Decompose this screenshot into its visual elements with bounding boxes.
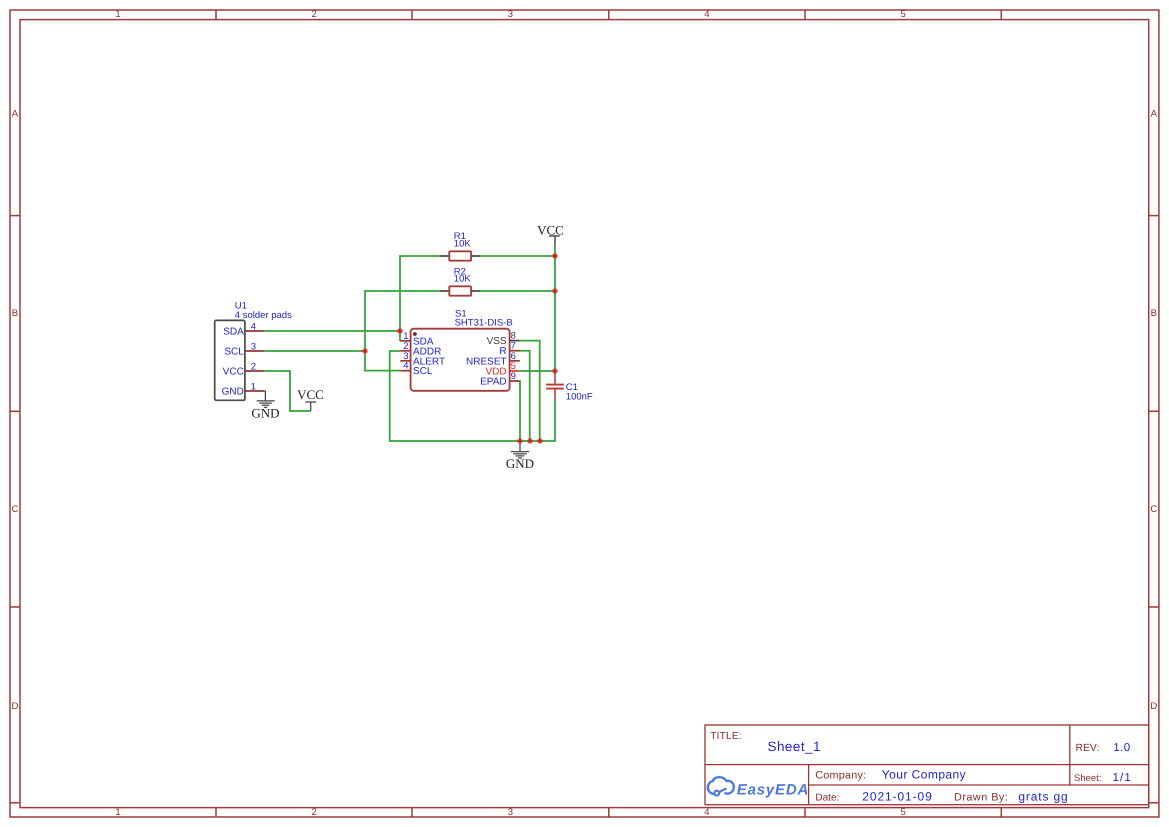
junction node pin7/GND [528,439,533,444]
svg-text:A: A [1151,109,1158,120]
svg-text:B: B [1151,308,1157,319]
svg-text:4: 4 [403,361,408,372]
wire S1 VDD to rail [519,370,555,372]
wire SDA U1 to S1 [264,330,400,332]
junction node pin8/GND [538,439,543,444]
junction node SDA [397,328,402,333]
S1 pin stubs 1,2,3,4,7,6,9 [400,341,520,381]
connector U1 [215,320,265,400]
svg-text:GND: GND [251,406,279,421]
resistor R2 [440,286,481,295]
wire S1 ADDR to ground bus [390,351,555,441]
svg-text:Sheet:: Sheet: [1074,773,1101,784]
svg-text:3: 3 [508,9,513,20]
U1 pin names SDA SCL VCC GND [222,327,245,398]
svg-text:1/1: 1/1 [1113,772,1132,784]
svg-text:2: 2 [251,361,256,372]
svg-text:SDA: SDA [223,327,244,338]
junction node R1/VCC [552,253,557,258]
svg-text:A: A [12,109,19,120]
svg-text:B: B [12,308,18,319]
wire SCL U1 to node [264,350,365,352]
svg-text:grats gg: grats gg [1018,789,1068,803]
svg-text:SHT31-DIS-B: SHT31-DIS-B [455,318,513,329]
wire R1 left to S1 pin1 [400,256,440,341]
pin names [413,336,445,377]
svg-text:2021-01-09: 2021-01-09 [862,789,932,803]
svg-text:Company:: Company: [815,770,866,782]
ground symbol at U1 [257,391,275,407]
junction node SCL [362,348,367,353]
title block [705,725,1149,805]
svg-text:C: C [11,504,18,515]
junction node EPAD/GND [518,439,523,444]
svg-text:SCL: SCL [224,347,244,358]
IC S1 SHT31-DIS-B [400,329,520,391]
U1 pin numbers 4,3,2,1 [251,321,256,392]
pin numbers right [511,331,516,382]
power symbol VCC top [549,236,560,246]
pin 5 stub VDD [510,370,520,372]
svg-text:10K: 10K [454,274,472,285]
pin1 indicator dot [413,332,417,336]
svg-text:3: 3 [251,341,256,352]
svg-text:EPAD: EPAD [480,377,507,388]
svg-text:VCC: VCC [223,367,244,378]
svg-text:2: 2 [312,807,317,818]
svg-text:Drawn By:: Drawn By: [954,791,1008,803]
svg-text:GND: GND [222,387,244,398]
svg-text:C: C [1150,504,1157,515]
svg-text:9: 9 [511,371,516,382]
svg-text:SCL: SCL [413,366,433,377]
svg-text:1: 1 [115,807,120,818]
wire R1 right to VCC rail [480,255,555,257]
EasyEDA logo [708,777,809,799]
resistor R1 [440,251,481,260]
pin numbers left [403,331,408,372]
U1 pin stubs 4,3,2,1 [245,331,264,391]
svg-text:Sheet_1: Sheet_1 [768,739,821,754]
svg-text:VCC: VCC [537,222,564,237]
wire S1 pin8 to ground bus [520,341,540,441]
svg-text:1: 1 [115,9,120,20]
svg-text:TITLE:: TITLE: [710,731,741,742]
svg-text:5: 5 [900,9,905,20]
svg-text:VCC: VCC [297,387,324,402]
svg-text:3: 3 [508,807,513,818]
svg-text:4: 4 [704,807,709,818]
wire S1 pin7 to ground bus [519,351,530,441]
svg-text:D: D [1150,701,1157,712]
junction node VDD [552,368,557,373]
svg-text:EasyEDA: EasyEDA [737,782,809,799]
svg-text:10K: 10K [454,239,472,250]
wire R2 right to VCC rail [480,290,555,292]
wire VCC rail vertical [554,246,556,371]
svg-text:2: 2 [312,9,317,20]
svg-text:4: 4 [704,9,709,20]
svg-text:4 solder pads: 4 solder pads [235,310,292,321]
wire U1 VCC to VCC symbol [264,371,310,411]
svg-text:5: 5 [900,807,905,818]
svg-text:1: 1 [251,381,256,392]
wire S1 EPAD to ground bus [518,381,521,441]
svg-text:4: 4 [251,321,256,332]
junction node R2/VCC [552,288,557,293]
svg-text:Your Company: Your Company [882,768,966,782]
pin 8 stub VSS [510,340,520,342]
capacitor C1 [546,371,564,400]
svg-text:1.0: 1.0 [1113,742,1130,754]
power symbol VCC at U1 [305,402,316,411]
svg-text:REV:: REV: [1076,743,1100,754]
svg-text:GND: GND [506,456,534,471]
svg-text:Date:: Date: [815,792,839,803]
svg-text:D: D [11,701,18,712]
svg-text:100nF: 100nF [566,391,593,402]
ground symbol at S1 [511,443,529,458]
wire R2 left to S1 SCL [365,291,440,371]
